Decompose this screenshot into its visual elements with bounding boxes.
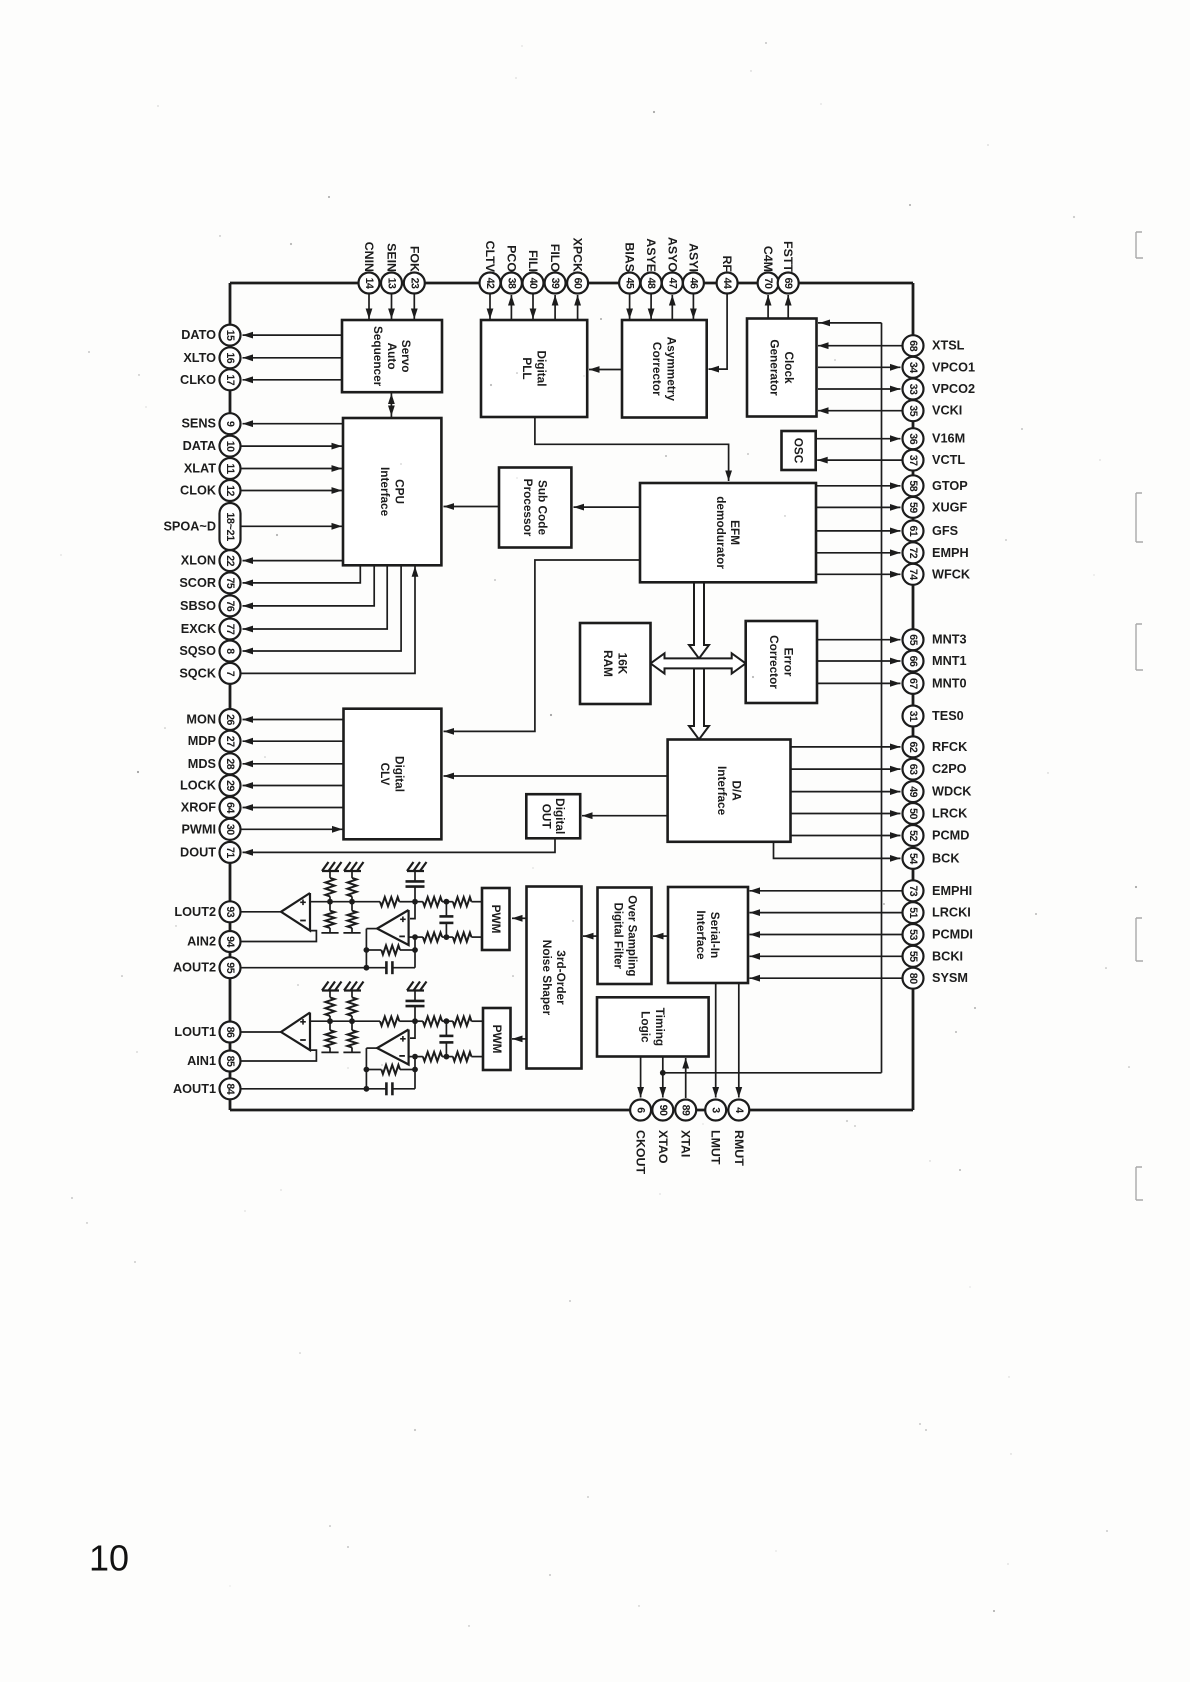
svg-text:38: 38 [505,278,517,289]
svg-text:PWMI: PWMI [181,822,216,836]
svg-text:58: 58 [907,480,919,491]
pin 9 SENS [181,413,343,434]
wire D/A Interface to Digital CLV [444,773,668,780]
svg-text:RAM: RAM [601,650,615,677]
svg-text:Sequencer: Sequencer [371,326,385,387]
pin 4 RMUT [728,1100,749,1167]
svg-text:EXCK: EXCK [181,622,217,636]
svg-text:23: 23 [408,278,420,289]
pin 42 CLTV [480,241,501,319]
capacitor C2b (series between lines) [439,902,453,937]
svg-text:64: 64 [224,802,236,813]
svg-text:SBSO: SBSO [180,599,216,613]
svg-text:31: 31 [907,711,919,722]
svg-text:Digital: Digital [393,756,407,792]
pin 54 BCK [903,848,961,869]
svg-text:40: 40 [527,278,539,289]
block OSC [782,431,816,470]
svg-text:18~21: 18~21 [224,512,236,541]
wire Timing Logic to pin 90 XTAO [659,1057,666,1098]
chip outline left border [229,283,232,1110]
svg-text:Digital: Digital [553,798,567,834]
svg-text:EFM: EFM [728,520,742,545]
pin 6 CKOUT [630,1100,651,1175]
pin 8 SQSO [179,565,401,661]
svg-text:84: 84 [224,1083,236,1094]
resistor R1b2 [343,1021,360,1052]
svg-text:XTSL: XTSL [932,339,965,353]
wire pin 89 XTAI to Timing Logic [682,1058,689,1098]
svg-text:XTAO: XTAO [656,1130,670,1164]
pin 37 VCTL [817,450,965,471]
svg-text:12: 12 [224,485,236,496]
junction series cap top 2 [444,899,450,905]
svg-text:TES0: TES0 [932,709,964,723]
block Timing Logic [597,997,709,1056]
resistor R2b2 [343,902,360,933]
ground G2a [322,862,342,871]
svg-text:GTOP: GTOP [932,479,968,493]
resistor R1d [415,1017,446,1026]
svg-text:Interface: Interface [715,766,729,816]
wire Digital PLL to EFM demodurator [535,417,732,481]
wire EFM demodurator to Sub Code Processor [574,504,641,511]
svg-text:Noise Shaper: Noise Shaper [540,940,554,1016]
svg-text:36: 36 [907,433,919,444]
svg-text:75: 75 [224,578,236,589]
pin 52 PCMD [791,825,970,846]
svg-text:MNT0: MNT0 [932,676,967,690]
pin 65 MNT3 [817,629,967,650]
pin 75 SCOR [179,565,360,593]
junction series cap top 1 [444,1018,450,1024]
ground G1a [322,982,342,991]
svg-text:XTAI: XTAI [679,1130,693,1157]
wire pin AOUT2 [241,967,367,969]
svg-text:Over Sampling: Over Sampling [626,895,638,976]
svg-text:V16M: V16M [932,432,965,446]
pin 72 EMPH [816,542,969,563]
resistor R2c [380,897,415,906]
svg-text:Asymmetry: Asymmetry [665,337,679,402]
svg-text:PLL: PLL [520,357,534,379]
svg-text:VCTL: VCTL [932,453,965,467]
capacitor C1b (series between lines) [439,1021,453,1056]
svg-text:GFS: GFS [932,524,958,538]
svg-text:85: 85 [224,1056,236,1067]
wire Sub Code Processor to CPU Interface [444,503,500,510]
svg-text:61: 61 [907,526,919,537]
pin 44 RF [709,255,738,372]
svg-text:DATO: DATO [181,328,216,342]
wire op-amp A1 noninverting input line [310,1020,380,1022]
wire op-amp A2 output to pin LOUT2 [241,911,282,913]
op-amp B1 (integrator) [377,1030,409,1065]
wire D/A Interface to Digital OUT [582,812,668,819]
svg-text:RF: RF [720,255,734,272]
svg-text:VCKI: VCKI [932,404,962,418]
svg-text:33: 33 [907,384,919,395]
pin 7 SQCK [179,566,418,684]
svg-text:XLTO: XLTO [183,351,216,365]
pin 76 SBSO [180,565,374,616]
junction main node 2 [412,899,418,905]
resistor R2b1 [347,871,356,902]
pin 46 ASYI [683,243,704,319]
pin 50 LRCK [791,803,969,824]
capacitor C1a (to ground) [406,991,425,1022]
pin 60 XPCK [567,238,588,320]
pin 94 AIN2 [187,931,240,952]
svg-text:47: 47 [666,278,678,289]
svg-text:8: 8 [224,648,236,654]
wire pin AIN2 to op-amp A2 inverting input [241,931,317,942]
svg-text:69: 69 [782,278,794,289]
svg-text:44: 44 [721,278,733,289]
block PWM (ch1) [483,1008,511,1070]
svg-text:ASYI: ASYI [686,243,700,272]
pin 35 VCKI [818,400,962,421]
svg-text:74: 74 [907,569,919,580]
resistor R2d [415,897,446,906]
wire op-amp B1 inverting line [409,1056,423,1058]
svg-text:XUGF: XUGF [932,500,967,514]
svg-text:BIAS: BIAS [623,242,637,272]
block Asymmetry Corrector [622,320,707,418]
svg-text:16K: 16K [616,653,630,675]
junction series cap bottom 2 [444,934,450,940]
svg-text:10: 10 [224,441,236,452]
pin 74 WFCK [816,564,971,585]
junction inverting node 1 [412,1054,418,1060]
svg-text:FILI: FILI [526,250,540,272]
pin 3 LMUT [705,1100,726,1165]
svg-text:SENS: SENS [181,417,216,431]
resistor R1c [380,1017,415,1026]
svg-text:49: 49 [907,786,919,797]
svg-text:28: 28 [224,758,236,769]
junction series cap bottom 1 [444,1054,450,1060]
svg-text:demodurator: demodurator [714,496,728,569]
junction feedback left 2 [364,947,370,953]
svg-text:CPU: CPU [392,479,406,504]
pin 38 PCO [501,245,522,320]
svg-text:53: 53 [907,929,919,940]
svg-text:68: 68 [907,340,919,351]
block Digital CLV [344,709,442,840]
svg-text:55: 55 [907,951,919,962]
pin 28 MDS [188,753,344,774]
svg-text:AIN2: AIN2 [187,935,216,949]
svg-text:11: 11 [224,463,236,474]
junction AOUT2 node [364,965,370,971]
svg-text:15: 15 [224,330,236,341]
svg-text:27: 27 [224,736,236,747]
wire inverting node down 2 [414,937,416,968]
svg-text:PCMD: PCMD [932,829,969,843]
capacitor C2a (to ground) [406,871,425,902]
block Servo Auto Sequencer [342,320,442,392]
pin 84 AOUT1 [173,1078,241,1099]
hollow arrow EFM demodurator down to bus junction [689,582,709,658]
block Serial-In Interface [668,887,748,983]
pin 17 CLKO [180,369,342,390]
wire Serial-In Interface to pin 4 RMUT [735,983,742,1098]
svg-text:70: 70 [762,278,774,289]
svg-text:37: 37 [907,455,919,466]
pin 47 ASYO [662,237,683,320]
svg-text:72: 72 [907,547,919,558]
block Digital OUT [526,794,580,838]
junction feedback right 1 [412,1067,418,1073]
junction divider A2 [327,899,333,905]
block PWM (ch2) [482,888,510,950]
svg-text:AIN1: AIN1 [187,1054,216,1068]
svg-text:6: 6 [635,1107,647,1113]
resistor R1fb (feedback) [366,1065,415,1074]
block EFM demodurator [640,483,816,582]
svg-text:54: 54 [907,853,919,864]
chip outline right border [912,283,915,1110]
svg-text:MDS: MDS [188,757,216,771]
svg-text:PCMDI: PCMDI [932,928,973,942]
bidirectional arrow Servo Auto Sequencer / CPU Interface [388,392,395,417]
junction main node 1 [412,1018,418,1024]
svg-text:77: 77 [224,624,236,635]
capacitor C2fb (feedback) [366,961,415,974]
pin 95 AOUT2 [173,957,241,978]
pin 36 V16M [816,428,965,449]
wire 3rd-Order Noise Shaper to PWM (ch2) [512,915,527,922]
pin 48 ASYE [641,238,662,319]
svg-text:73: 73 [907,885,919,896]
svg-text:66: 66 [907,656,919,667]
pin 22 XLON [181,550,343,571]
svg-text:Corrector: Corrector [767,635,781,689]
pin 10 DATA [183,436,342,457]
wire node to op-amp B1 noninverting input [410,1021,415,1038]
block 3rd-Order Noise Shaper [527,887,582,1069]
svg-text:MNT1: MNT1 [932,654,967,668]
svg-text:94: 94 [224,936,236,947]
svg-text:51: 51 [907,907,919,918]
svg-text:WFCK: WFCK [932,567,971,581]
svg-text:9: 9 [224,421,236,427]
svg-text:26: 26 [224,714,236,725]
svg-text:59: 59 [907,502,919,513]
pin 33 VPCO2 [818,379,975,400]
svg-text:EMPH: EMPH [932,546,969,560]
svg-text:MNT3: MNT3 [932,633,967,647]
svg-text:80: 80 [907,973,919,984]
pin 55 BCKI [750,946,964,967]
ground G1c [407,982,427,991]
svg-text:SPOA~D: SPOA~D [163,519,216,533]
svg-text:62: 62 [907,742,919,753]
svg-text:SCOR: SCOR [179,576,216,590]
junction feedback left 1 [364,1067,370,1073]
svg-text:SEIN: SEIN [385,243,399,272]
resistor R1a1 [325,991,334,1022]
svg-text:65: 65 [907,634,919,645]
resistor R1b1 [347,991,356,1022]
svg-text:Processor: Processor [521,479,535,537]
pin 85 AIN1 [187,1051,240,1072]
pin 70 C4M [758,246,779,319]
svg-text:XROF: XROF [181,801,216,815]
svg-text:45: 45 [624,278,636,289]
svg-text:16: 16 [224,352,236,363]
wire Over Sampling Digital Filter to 3rd-Order Noise Shaper [583,933,598,940]
svg-text:BCK: BCK [932,851,960,865]
svg-text:35: 35 [907,405,919,416]
pin 16 XLTO [183,347,342,368]
pin 18~21 SPOA~D [163,503,342,550]
pin 63 C2PO [791,759,967,780]
svg-text:Interface: Interface [378,467,392,517]
page number 10 [89,1538,129,1579]
svg-text:39: 39 [549,278,561,289]
pin 13 SEIN [381,243,402,319]
pin 69 FSTT [778,241,799,318]
wire D/A Interface to pin 54 BCK (step) [774,842,901,862]
svg-text:WDCK: WDCK [932,785,972,799]
block CPU Interface [343,418,441,565]
block Sub Code Processor [499,468,571,548]
pin 40 FILI [523,250,544,319]
svg-text:PWM: PWM [490,1025,504,1054]
svg-text:76: 76 [224,601,236,612]
resistor R2f [423,933,447,942]
svg-text:EMPHI: EMPHI [932,884,972,898]
pin 53 PCMDI [750,924,973,945]
block Clock Generator [747,319,817,417]
svg-text:3rd-Order: 3rd-Order [554,950,568,1005]
pin 86 LOUT1 [174,1022,240,1043]
wire op-amp B1 output to AOUT1 node [366,1048,377,1089]
pin 31 TES0 [903,706,964,727]
junction XTAO riser [660,1070,882,1076]
svg-text:ASYO: ASYO [665,237,679,272]
wire op-amp B2 inverting line [409,936,423,938]
hollow arrow bus junction down to D/A Interface [689,669,709,740]
ground G1b [344,982,364,991]
svg-text:FOK: FOK [407,246,421,272]
pin 68 XTSL [818,335,965,356]
junction inverting node 2 [412,934,418,940]
wire inverting node down 1 [414,1057,416,1089]
pin 30 PWMI [181,819,342,840]
pin 45 BIAS [619,242,640,319]
svg-text:Auto: Auto [385,343,399,370]
svg-text:Servo: Servo [399,340,413,373]
pin 73 EMPHI [750,880,973,901]
wire Digital OUT to pin 71 DOUT [243,838,556,856]
svg-text:FSTT: FSTT [781,241,795,272]
svg-text:Logic: Logic [639,1011,653,1043]
svg-text:OSC: OSC [792,438,806,464]
svg-text:C2PO: C2PO [932,762,967,776]
svg-text:LOCK: LOCK [180,779,217,793]
svg-text:95: 95 [224,962,236,973]
svg-text:Generator: Generator [768,339,782,396]
wire XTAO to Clock Generator (vertical riser) [818,320,882,1073]
block Error Corrector [746,621,817,703]
pin 39 FILO [545,244,566,320]
ground G2c [407,862,427,871]
chip outline top border [230,282,913,285]
svg-text:MDP: MDP [188,734,217,748]
resistor R1f [423,1052,447,1061]
pin 12 CLOK [180,480,342,501]
svg-text:Timing: Timing [653,1008,667,1046]
ground G2b [344,862,364,871]
pin 93 LOUT2 [174,901,240,922]
svg-text:22: 22 [224,555,236,566]
svg-text:AOUT2: AOUT2 [173,961,216,975]
wire Asymmetry Corrector to Digital PLL [589,366,622,373]
svg-text:C4M: C4M [761,246,775,272]
svg-text:LOUT2: LOUT2 [174,905,216,919]
svg-text:93: 93 [224,906,236,917]
svg-text:34: 34 [907,362,919,373]
pin 89 XTAI [675,1100,696,1158]
svg-text:ASYE: ASYE [644,238,658,272]
resistor R2a2 [321,902,338,933]
svg-text:OUT: OUT [540,804,554,830]
junction divider B1 [349,1018,355,1024]
pin 15 DATO [181,325,342,346]
svg-text:48: 48 [645,278,657,289]
svg-text:Serial-In: Serial-In [708,912,722,959]
svg-text:CNIN: CNIN [362,242,376,272]
chip outline bottom border [230,1109,913,1112]
svg-text:SYSM: SYSM [932,971,968,985]
svg-text:67: 67 [907,678,919,689]
svg-text:60: 60 [572,278,584,289]
block Digital PLL [481,320,587,417]
svg-text:RMUT: RMUT [732,1130,746,1166]
svg-text:LRCK: LRCK [932,807,968,821]
pin 62 RFCK [791,736,969,757]
svg-text:10: 10 [89,1538,129,1579]
svg-text:29: 29 [224,780,236,791]
svg-text:86: 86 [224,1027,236,1038]
junction feedback right 2 [412,947,418,953]
svg-text:Digital: Digital [534,350,548,386]
svg-text:VPCO2: VPCO2 [932,382,975,396]
resistor R2a1 [325,871,334,902]
junction AOUT1 node [364,1086,370,1092]
pin 58 GTOP [816,475,968,496]
pin 23 FOK [404,246,425,319]
svg-text:13: 13 [386,278,398,289]
svg-text:CKOUT: CKOUT [634,1130,648,1174]
pin 61 GFS [816,520,958,541]
svg-text:PCO: PCO [504,245,518,272]
svg-text:XLAT: XLAT [184,462,216,476]
pin 34 VPCO1 [818,357,975,378]
resistor R2e [446,897,483,906]
pin 66 MNT1 [817,651,967,672]
wire op-amp A1 output to pin LOUT1 [241,1031,282,1033]
pin 67 MNT0 [817,673,967,694]
svg-text:D/A: D/A [729,780,743,801]
pin 29 LOCK [180,775,343,796]
svg-text:CLTV: CLTV [483,241,497,273]
svg-text:SQSO: SQSO [179,644,216,658]
svg-text:XPCK: XPCK [571,238,585,272]
